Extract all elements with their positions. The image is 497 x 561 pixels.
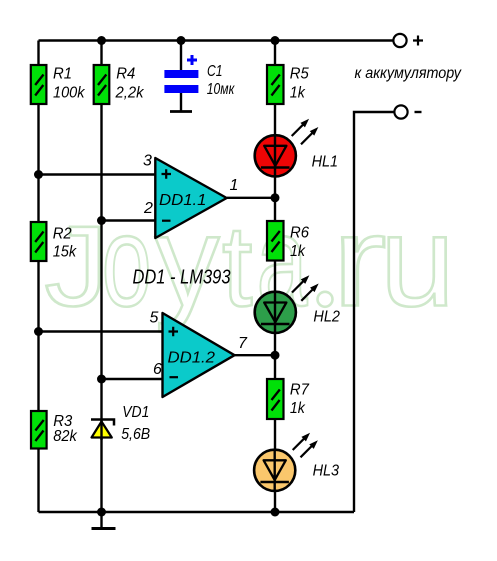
svg-text:HL3: HL3 xyxy=(313,462,340,479)
svg-text:2: 2 xyxy=(143,200,153,217)
watermark Joyta.ru xyxy=(45,190,456,334)
svg-text:R5: R5 xyxy=(290,66,309,83)
svg-text:C1: C1 xyxy=(207,63,223,80)
svg-text:6: 6 xyxy=(153,361,162,378)
LED HL3 xyxy=(254,434,339,491)
svg-text:15k: 15k xyxy=(53,243,77,260)
node bottom LED column xyxy=(271,508,280,517)
wire right rail xyxy=(354,112,395,512)
resistor R5 xyxy=(267,65,309,104)
svg-text:82k: 82k xyxy=(53,428,77,445)
wire top rail xyxy=(39,39,394,41)
svg-text:1: 1 xyxy=(230,177,239,194)
wire pin5 input xyxy=(39,330,163,332)
node top R4 xyxy=(97,36,106,45)
wire C1 leads xyxy=(180,41,182,112)
wire pin6 input xyxy=(102,378,163,380)
ground xyxy=(92,512,116,529)
node DD1.1 out xyxy=(271,193,280,202)
node pin2 xyxy=(97,216,106,225)
svg-text:1k: 1k xyxy=(290,400,306,417)
svg-text:100k: 100k xyxy=(53,84,85,101)
svg-text:R7: R7 xyxy=(290,381,310,398)
svg-text:3: 3 xyxy=(143,153,152,170)
wire DD1.2 output to node xyxy=(235,354,276,356)
wire DD1.1 output to node xyxy=(227,197,275,199)
LED HL1 xyxy=(255,120,338,177)
wire LED column xyxy=(274,41,276,513)
wire left rail xyxy=(37,41,39,513)
node pin6 xyxy=(97,375,106,384)
svg-text:DD1 - LM393: DD1 - LM393 xyxy=(133,266,231,288)
svg-text:u: u xyxy=(380,190,455,334)
svg-text:1k: 1k xyxy=(290,243,306,260)
capacitor C1 xyxy=(164,55,235,98)
svg-text:1k: 1k xyxy=(290,84,306,101)
svg-text:DD1.2: DD1.2 xyxy=(168,350,216,367)
wire bottom rail xyxy=(39,511,355,513)
resistor R6 xyxy=(267,221,309,261)
resistor R2 xyxy=(31,222,77,261)
terminal + xyxy=(393,34,423,47)
svg-text:2,2k: 2,2k xyxy=(115,84,145,101)
svg-text:к аккумулятору: к аккумулятору xyxy=(355,65,462,82)
svg-text:7: 7 xyxy=(238,335,248,352)
svg-text:R1: R1 xyxy=(53,66,72,83)
zener diode VD1 xyxy=(91,404,150,443)
wire pin3 input xyxy=(39,173,156,175)
svg-text:HL2: HL2 xyxy=(313,309,340,326)
wire pin2 input xyxy=(102,219,156,221)
resistor R7 xyxy=(267,379,310,419)
svg-text:HL1: HL1 xyxy=(312,154,339,171)
node pin3 left xyxy=(34,170,43,179)
node top R5 xyxy=(271,36,280,45)
svg-text:R4: R4 xyxy=(116,66,135,83)
terminal - xyxy=(394,105,421,118)
resistor R1 xyxy=(31,65,86,104)
node pin5 left xyxy=(34,327,43,336)
wire second rail (R4/VD1 column) xyxy=(100,41,102,513)
node DD1.2 out xyxy=(271,351,280,360)
wire C1 bottom bar xyxy=(170,110,192,113)
svg-text:VD1: VD1 xyxy=(122,404,149,421)
svg-text:10мк: 10мк xyxy=(207,81,236,98)
svg-text:R6: R6 xyxy=(290,225,309,242)
svg-text:5,6В: 5,6В xyxy=(121,426,150,443)
resistor R3 xyxy=(31,411,78,449)
svg-text:5: 5 xyxy=(150,310,159,327)
LED HL2 xyxy=(255,276,340,333)
resistor R4 xyxy=(94,65,145,104)
svg-text:R2: R2 xyxy=(53,225,72,242)
node ground xyxy=(97,508,106,517)
op-amp U2 DD1.2 xyxy=(150,310,249,398)
node top C1 xyxy=(177,36,186,45)
op-amp U1 DD1.1 xyxy=(143,153,238,239)
svg-text:DD1.1: DD1.1 xyxy=(159,192,207,209)
